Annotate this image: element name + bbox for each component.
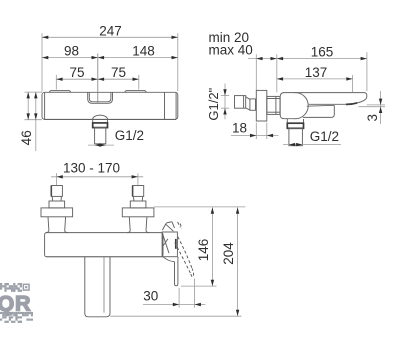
dimension min20-max40 wall gap xyxy=(248,54,277,92)
side view: taper to union xyxy=(246,97,250,110)
side view: wall escutcheon xyxy=(256,90,267,121)
dimension G1/2" vertical (wall nipple) xyxy=(206,84,229,121)
side view: lever below spout xyxy=(303,105,335,117)
side view: connector xyxy=(267,96,280,114)
dimension 30 (lever travel) xyxy=(143,279,206,308)
wall plane extension line xyxy=(154,206,246,208)
dimension 165 xyxy=(277,44,367,91)
svg-text:30: 30 xyxy=(143,289,158,304)
top view: outlet stub sides xyxy=(93,119,108,123)
front view: lever open position (dashed) xyxy=(175,222,194,277)
front view: spout column xyxy=(85,257,110,317)
dimension 204 xyxy=(110,207,241,316)
side view: outlet stub sides xyxy=(287,119,303,123)
top view: outlet dome xyxy=(93,115,108,119)
svg-text:247: 247 xyxy=(99,23,122,38)
svg-text:max 40: max 40 xyxy=(209,43,253,58)
top view: right end cap lines xyxy=(165,93,177,120)
top view: center slot outer xyxy=(88,92,113,103)
svg-text:G1/2": G1/2" xyxy=(206,87,221,120)
svg-text:75: 75 xyxy=(111,65,126,80)
svg-text:QR: QR xyxy=(0,292,31,316)
dimension 18 xyxy=(231,120,279,139)
side view: spout bottom edge xyxy=(309,103,346,105)
svg-text:G1/2: G1/2 xyxy=(310,129,339,144)
dimension 3 (spout lip) xyxy=(359,91,386,124)
front view: lever pivot detail lines xyxy=(162,233,176,261)
top view: right mounting bump xyxy=(125,91,147,93)
side view: union body xyxy=(250,99,256,110)
svg-text:46: 46 xyxy=(19,130,34,145)
dimension 146 xyxy=(181,207,217,286)
svg-text:98: 98 xyxy=(64,44,79,59)
svg-text:75: 75 xyxy=(69,65,84,80)
dimension 137 xyxy=(277,65,353,92)
top view: vertical centerline xyxy=(97,54,99,104)
dimension 75 / 75 xyxy=(56,65,139,89)
front view: lever top nub xyxy=(162,222,174,231)
front view: lever blade (closed position) xyxy=(175,257,178,286)
top view: left mounting bump xyxy=(49,91,71,93)
watermark QR pattern xyxy=(0,283,33,323)
dimension 247 xyxy=(42,23,178,91)
side view: outlet thread stub xyxy=(289,128,303,145)
texts min 20 / max 40 xyxy=(209,30,253,58)
svg-text:148: 148 xyxy=(132,44,155,59)
side view: spout top edge and tip xyxy=(294,93,367,103)
svg-text:3: 3 xyxy=(365,114,380,122)
front view: lever boss xyxy=(162,232,177,257)
top view: left end cap line xyxy=(44,93,46,120)
side view: outlet collar band xyxy=(287,123,303,128)
svg-text:146: 146 xyxy=(196,239,211,262)
svg-text:204: 204 xyxy=(221,242,236,265)
svg-text:G1/2: G1/2 xyxy=(115,128,144,143)
side view: mixer body xyxy=(280,93,308,119)
dimension 130 - 170 xyxy=(51,160,143,185)
svg-text:18: 18 xyxy=(232,120,247,135)
svg-text:137: 137 xyxy=(305,65,328,80)
callout G1/2 (side view outlet) xyxy=(283,129,341,146)
callout G1/2 (top view outlet) xyxy=(88,128,144,147)
svg-text:165: 165 xyxy=(311,44,334,59)
dimension 46 xyxy=(19,92,42,151)
side view: spout lip (thick) xyxy=(346,103,357,105)
svg-text:130 - 170: 130 - 170 xyxy=(63,160,120,175)
top view: center slot inner xyxy=(89,92,111,102)
top view: outlet thread stub G1/2 xyxy=(95,128,106,144)
front view: left wall union xyxy=(41,186,73,233)
top view: outlet collar band xyxy=(93,123,108,128)
side view: wall nipple G1/2 xyxy=(235,96,246,109)
top view: mixer body outline xyxy=(42,92,178,119)
front view: right wall union xyxy=(122,186,154,233)
front view: mixer body bar xyxy=(45,233,163,257)
dimension 98 / 148 xyxy=(42,44,178,60)
